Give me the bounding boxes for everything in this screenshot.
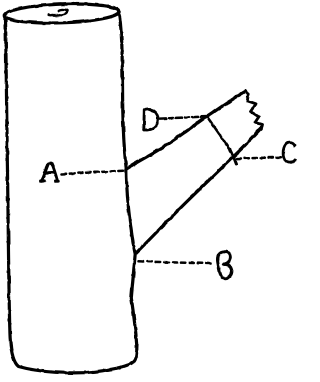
dashed leader D — [160, 117, 205, 119]
label A — [41, 163, 59, 181]
dashed leader A — [62, 171, 127, 174]
dashed leader B — [139, 261, 212, 263]
label D — [144, 109, 158, 129]
trunk right edge lower (bottom corner up to branch junction A) — [126, 169, 137, 347]
trunk right edge upper (junction A up to ellipse tip) — [119, 15, 126, 169]
cut line D-to-C across branch — [207, 117, 236, 165]
branch upper edge — [126, 91, 246, 169]
trunk left edge and bottom — [6, 18, 137, 373]
dashed leader C — [237, 157, 282, 158]
branch lower edge (tip bottom, past cut crossing, down to trunk at B) — [136, 129, 261, 254]
growth-ring curl on cut top — [49, 9, 68, 15]
label C — [283, 143, 295, 163]
branch jagged broken tip — [246, 91, 262, 128]
label B — [217, 252, 231, 279]
top ellipse — [4, 2, 119, 25]
